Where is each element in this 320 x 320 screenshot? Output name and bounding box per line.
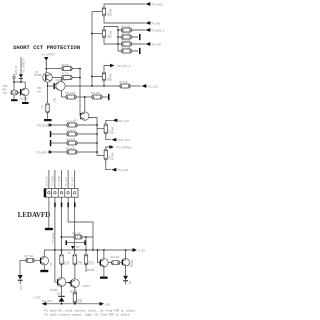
wire bus x118 [117, 27, 119, 52]
svg-text:100n: 100n [55, 97, 57, 103]
wire pin4 up [67, 170, 69, 189]
port arrow row3 [146, 42, 150, 45]
connector cell divider 1 [51, 189, 53, 198]
pin circle 4 [67, 192, 69, 194]
wire Q1 base stub [92, 11, 102, 13]
svg-text:BC848: BC848 [111, 30, 113, 38]
node W2 y82 [20, 81, 22, 83]
bar mark pin4 [67, 203, 69, 208]
wire Q2 emitter to rail y44 [104, 38, 118, 44]
bar mark pin5 [74, 203, 76, 208]
transistor Q4 [20, 88, 29, 96]
diode D1 [19, 74, 23, 82]
svg-text:+5V: +5V [76, 247, 81, 249]
svg-text:TP_MOSI: TP_MOSI [53, 232, 55, 243]
wire pin5 up [74, 170, 76, 189]
wire pin1 up [48, 170, 50, 189]
resistor R10 [66, 95, 92, 99]
port arrow SCP [111, 64, 115, 67]
wire R31 to Q9 [61, 264, 63, 278]
node R6 right [79, 68, 81, 70]
resistor R11 [92, 95, 108, 99]
svg-text:U_TN1: U_TN1 [33, 298, 41, 300]
svg-text:BC858: BC858 [51, 290, 59, 292]
wire Q3 base stub [92, 76, 102, 78]
resistor R17 [20, 258, 40, 262]
wire x86 drop [85, 237, 87, 250]
node rail ZD1 [61, 303, 63, 305]
wire Q10 emitter to R34 [74, 288, 76, 293]
node rail x86 [85, 249, 87, 251]
ground pin1 [45, 228, 53, 230]
node rail x54.9 [54, 249, 56, 251]
connector cell divider 4 [70, 189, 72, 198]
svg-text:Q14: Q14 [110, 155, 112, 160]
bar mark pin3 [61, 203, 63, 208]
port arrow 5V0A_VCC [112, 138, 116, 141]
node rail y143 [96, 142, 98, 144]
wire pin2 up [54, 170, 56, 189]
wire pin2 down [54, 197, 56, 250]
ground Q8 [40, 265, 48, 272]
wire Q5 emitter to R9 [47, 90, 49, 104]
ground W1 [11, 99, 18, 101]
wire bottom rail [46, 303, 100, 305]
wire Q9 base [55, 250, 57, 282]
node W1 y82 [13, 81, 15, 83]
node R7 right [79, 77, 81, 79]
pin circle 2 [54, 192, 56, 194]
svg-text:BC848: BC848 [111, 73, 113, 81]
power flag +5V_VPROT [44, 57, 49, 66]
wire Q5 emitter down [47, 82, 49, 90]
port arrow TP_MOSI [146, 2, 150, 5]
connector cell divider 2 [57, 189, 59, 198]
wire rail to Q8 [43, 250, 45, 256]
resistor R19 [108, 261, 122, 265]
svg-text:BC848: BC848 [112, 126, 114, 134]
node rail x74.7 [74, 249, 76, 251]
resistor R14 [120, 84, 141, 88]
wire Q7 base [79, 115, 81, 117]
svg-text:5V0_VCC: 5V0_VCC [47, 175, 49, 186]
wire Q6 emitter to R10 [62, 96, 67, 98]
port arrow row1 [146, 28, 150, 31]
transistor Q9 [57, 278, 66, 287]
resistor R6 [62, 67, 80, 71]
jumper J1 [66, 240, 86, 245]
transistor Q14 [104, 149, 107, 160]
node rail y134 [96, 133, 98, 135]
svg-text:TP2_MOS: TP2_MOS [37, 124, 49, 127]
wire node row y82 [14, 81, 25, 83]
connector P1 end tab [44, 189, 47, 198]
node Q5 emitter branch [47, 85, 49, 87]
wire branch to Q6 base [48, 85, 54, 87]
wire Q11 collector [103, 250, 105, 258]
svg-text:TP_CLK: TP_CLK [66, 177, 68, 186]
node rail x92 [91, 85, 93, 87]
svg-text:SHORT CCT PROTECTION: SHORT CCT PROTECTION [13, 44, 80, 51]
transistor Q7 [80, 112, 89, 120]
svg-text:TP3_MTP: TP3_MTP [36, 151, 48, 154]
termination bar row4 [139, 48, 141, 54]
wire Q13 base stub [97, 128, 104, 130]
svg-text:TP_MOS_2: TP_MOS_2 [151, 29, 164, 32]
node Q3 base junction [91, 76, 93, 78]
svg-text:TP1_WTPAUX: TP1_WTPAUX [115, 147, 132, 150]
node rail x61.5 [61, 249, 63, 251]
svg-text:TP_MOSI: TP_MOSI [53, 175, 55, 186]
node R16 right x86 [85, 236, 87, 238]
wire W2 [20, 57, 22, 74]
node bus y37 [117, 36, 119, 38]
node rail x125.6 [125, 249, 127, 251]
transistor Q11 [100, 259, 108, 267]
transistor Q1 [102, 7, 105, 16]
svg-text:LED1: LED1 [21, 284, 23, 291]
node flag junction [45, 68, 47, 70]
diode D2 [123, 276, 128, 285]
wire main rail y250 [44, 249, 132, 251]
wire Q14 emitter to port [106, 159, 111, 170]
resistor R32 vertical [73, 250, 76, 265]
diode LED1 [18, 275, 23, 284]
svg-text:SPI_MIS: SPI_MIS [151, 43, 161, 46]
resistor R5 [11, 90, 20, 95]
wire Q1 emitter to rail y22 [104, 16, 146, 23]
power flag rail [71, 246, 75, 249]
bar mark pin2 [54, 203, 56, 208]
wire W1 to ground [13, 95, 15, 99]
svg-text:R5A: R5A [3, 85, 8, 88]
port arrow TP_MISO [146, 21, 150, 24]
port arrow U_EN [132, 248, 137, 251]
transistor Q6 [54, 81, 66, 90]
ground R9 [44, 119, 52, 121]
port arrow 5V0_VCT [106, 119, 118, 125]
wire pin5 down [74, 197, 76, 250]
wire pin3 up [61, 170, 63, 189]
wire Q6 collector [61, 78, 63, 82]
node rail R34 [74, 303, 76, 305]
node rail y152 [96, 151, 98, 153]
resistor R7 [62, 76, 80, 80]
svg-text:5V: 5V [68, 253, 71, 255]
transistor Q10 [71, 279, 80, 288]
resistor R22 [118, 35, 138, 39]
wire W1 [13, 74, 15, 90]
termination bar rowC [50, 140, 52, 146]
connector P1 body [45, 189, 78, 198]
wire Q3 collector to port [104, 66, 110, 73]
wire Q11 emitter [103, 267, 105, 276]
resistor R18 [67, 150, 97, 154]
resistor R13 [67, 132, 97, 136]
resistor R24 [118, 49, 138, 53]
svg-text:LEDAVFD: LEDAVFD [18, 212, 50, 219]
svg-text:BC848: BC848 [112, 152, 114, 160]
svg-text:U_EN: U_EN [138, 250, 145, 253]
transistor Q2 [102, 29, 105, 38]
wire Q10 collector [74, 264, 76, 279]
svg-text:5V0_VCC: 5V0_VCC [147, 85, 158, 88]
port arrow 5V0_VCC [142, 84, 146, 87]
svg-text:BC848: BC848 [21, 99, 29, 101]
resistor R9 vertical [46, 103, 49, 119]
wire rail to Q11 base [98, 250, 100, 263]
resistor R23 [118, 42, 146, 46]
wire rail x80 [79, 69, 81, 117]
svg-text:SH_CCT_P: SH_CCT_P [118, 65, 131, 68]
port arrow rowD [49, 151, 67, 154]
node bus y30 [117, 29, 119, 31]
resistor R21 [118, 28, 146, 32]
wire Q7 emitter to rail x97 [89, 118, 97, 156]
svg-text:BC848: BC848 [132, 259, 134, 267]
pin circle 1 [48, 192, 50, 194]
resistor R16 [62, 235, 94, 239]
svg-text:Q13: Q13 [110, 129, 112, 134]
wire flag down to Q5 [45, 60, 47, 72]
wire pin3 down [61, 197, 63, 238]
mark W1 [13, 76, 15, 78]
svg-text:TP_MIS: TP_MIS [151, 22, 160, 25]
node rail y125 [96, 124, 98, 126]
svg-text:P1 pin5 connect imped. lamp, U: P1 pin5 connect imped. lamp, U1 from TOP… [45, 313, 130, 317]
transistor Q12 [122, 258, 130, 266]
svg-text:ZD1: ZD1 [57, 294, 62, 296]
resistor R33 vertical [84, 250, 87, 272]
wire rowB [51, 133, 67, 135]
node rail x93 [92, 249, 94, 251]
svg-text:BC858: BC858 [34, 75, 42, 77]
svg-text:TP_MISO: TP_MISO [59, 176, 61, 186]
svg-text:5V_VPROT: 5V_VPROT [22, 59, 26, 73]
svg-text:5V0A_VCC: 5V0A_VCC [117, 139, 130, 142]
resistor R34 vertical [73, 292, 76, 304]
wire Q5 right to R7 [52, 77, 62, 79]
svg-text:BC848: BC848 [111, 8, 113, 16]
svg-text:+5V_VPROT: +5V_VPROT [41, 54, 56, 57]
node coupling [68, 282, 70, 284]
wire Q4 collector [24, 82, 26, 88]
port arrow TP1_AUX [112, 168, 116, 171]
zener ZD1 [58, 286, 64, 303]
transistor Q13 [104, 124, 107, 135]
wire Q2 collector to rail y26.5 [104, 27, 118, 30]
wire Q12 emitter [125, 266, 127, 276]
svg-text:TP1_WIN: TP1_WIN [42, 301, 52, 303]
wire rail y86 [65, 85, 120, 87]
node Q2 base junction [91, 33, 93, 35]
node R16 left [61, 236, 63, 238]
svg-text:P1 pin3 NC, pin5 connect short: P1 pin3 NC, pin5 connect short, U1 from … [45, 309, 137, 313]
wire Q13 emitter to port [106, 133, 111, 140]
port arrow bottom left [42, 302, 47, 305]
resistor R15 [67, 141, 97, 145]
node rail x104 [103, 249, 105, 251]
svg-text:TP1_AUX: TP1_AUX [117, 169, 128, 172]
wire Q6 emitter [61, 91, 63, 97]
wire Q14 base from rail [97, 155, 104, 157]
wire to R6 [46, 68, 62, 70]
wire Q12 collector [125, 250, 127, 258]
port arrow rowA [49, 124, 67, 127]
wire Q3 emitter to rail y86 [103, 81, 105, 86]
port arrow TP1_WTPAUX [106, 145, 114, 150]
wire Q1 collector to top rail [104, 4, 146, 7]
wire pin4 down then right [68, 197, 93, 250]
svg-text:R17 10k: R17 10k [25, 256, 35, 258]
pin circle 5 [74, 192, 76, 194]
ground Q4 [22, 102, 29, 104]
svg-text:R5A: R5A [37, 87, 42, 90]
termination bar rowB [50, 131, 52, 137]
termination bar R11 [108, 94, 110, 100]
svg-text:TP_RST: TP_RST [72, 176, 74, 186]
resistor R12 [67, 123, 97, 127]
transistor Q3 [102, 72, 105, 81]
svg-text:R19 10k: R19 10k [111, 257, 121, 259]
node rail x97.5 [97, 249, 99, 251]
svg-text:SCP_IN: SCP_IN [14, 66, 18, 75]
port arrow LED [99, 302, 104, 305]
wire Q2 base stub [92, 33, 102, 35]
svg-text:100k: 100k [2, 90, 8, 92]
svg-text:BC848: BC848 [87, 270, 95, 272]
wire pin3 continue [61, 238, 63, 255]
svg-text:TPA_MOS: TPA_MOS [151, 3, 163, 6]
termination bar row2 [139, 34, 141, 40]
node Q3 emitter junction [103, 85, 105, 87]
pin circle 3 [60, 192, 62, 194]
wire Q4 emitter [24, 96, 26, 102]
svg-text:LED: LED [105, 303, 110, 306]
wire rail x92 [91, 12, 93, 87]
ground Q11 [100, 277, 108, 279]
wire Q7 collector [84, 97, 86, 112]
transistor Q5 [43, 73, 53, 83]
node bus y44 [117, 43, 119, 45]
connector cell divider 3 [64, 189, 66, 198]
wire LED branch [19, 260, 21, 274]
svg-text:+5VDC: +5VDC [82, 286, 90, 288]
wire pin1 down to ground [48, 197, 50, 227]
wire rowC [51, 142, 67, 144]
transistor Q8 [40, 256, 49, 265]
resistor R31 vertical [60, 250, 63, 265]
wire Q9 Q10 coupling [66, 282, 71, 284]
svg-text:5V0_VCT: 5V0_VCT [118, 120, 129, 123]
node Q7 collector [84, 96, 86, 98]
